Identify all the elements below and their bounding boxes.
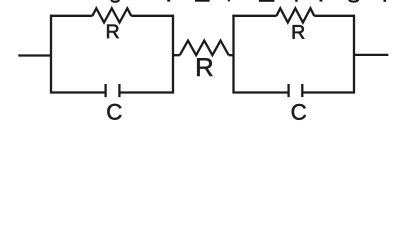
- cropped text remnants along top edge: [110, 0, 386, 3]
- wire: stage-2 right edge (vertical): [353, 15, 355, 94]
- wire: stage-1 top-left segment: [50, 15, 92, 17]
- label R (R2): [197, 58, 212, 76]
- wire: stage-2 bottom-left segment: [233, 91, 289, 93]
- resistor R3 (top branch, stage 2): [277, 8, 315, 22]
- label R (R3): [293, 25, 305, 38]
- wire: stage-2 top-left segment: [232, 15, 276, 17]
- wire: middle link right stub: [229, 54, 235, 56]
- wire: left lead: [18, 54, 52, 56]
- label C (C2): [292, 104, 306, 120]
- capacitor C1 left plate: [104, 84, 106, 97]
- wire: stage-1 bottom-left segment: [50, 91, 106, 93]
- wire: stage-1 top-right segment: [131, 15, 174, 17]
- label C (C1): [107, 104, 121, 120]
- resistor R2 (series, middle): [180, 41, 229, 56]
- resistor R1 (top branch, stage 1): [92, 8, 131, 22]
- wire: stage-2 left edge (vertical): [232, 15, 234, 94]
- label R (R1): [107, 25, 119, 38]
- capacitor C2 left plate: [287, 84, 289, 97]
- wire: right lead: [353, 54, 388, 56]
- wire: middle link left stub: [173, 54, 180, 56]
- wire: stage-2 top-right segment: [314, 15, 355, 17]
- wire: stage-1 left edge (vertical): [50, 15, 52, 94]
- capacitor C1 right plate: [118, 84, 120, 97]
- wire: stage-1 right edge (vertical): [172, 15, 174, 94]
- wire: stage-1 bottom-right segment: [119, 91, 174, 93]
- capacitor C2 right plate: [301, 84, 303, 97]
- wire: stage-2 bottom-right segment: [302, 91, 355, 93]
